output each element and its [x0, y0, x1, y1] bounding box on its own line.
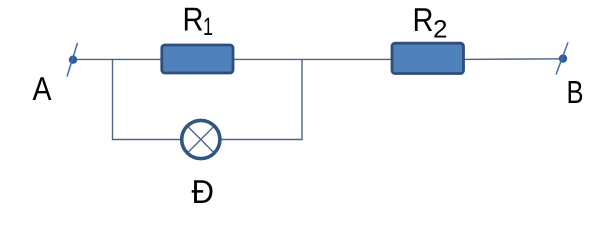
- wire junction2 down (right vertical): [301, 59, 303, 140]
- wire R2 to B: [464, 58, 563, 61]
- resistor R1: [162, 45, 233, 73]
- svg-text:R: R: [413, 1, 434, 38]
- wire junction2 to R2: [302, 58, 391, 60]
- wire bottom left to lamp: [113, 139, 182, 141]
- node A terminal (dot and slash): [67, 43, 78, 77]
- label R2: [413, 1, 448, 44]
- svg-text:A: A: [33, 70, 52, 107]
- label D (lamp): [192, 173, 215, 210]
- wire junction1 to R1: [113, 58, 161, 60]
- resistor R2: [392, 43, 464, 73]
- wire junction1 down (left vertical): [112, 59, 114, 140]
- label R1: [183, 0, 214, 41]
- wire R1 to junction2: [234, 58, 302, 60]
- lamp Đ: [182, 120, 220, 158]
- svg-text:R: R: [183, 0, 204, 37]
- svg-text:Đ: Đ: [192, 173, 215, 210]
- label A: [33, 70, 52, 107]
- wire A to junction1: [73, 58, 113, 60]
- svg-text:B: B: [567, 74, 584, 110]
- node B terminal (dot and slash): [556, 42, 568, 74]
- svg-text:2: 2: [433, 16, 448, 44]
- wire lamp to bottom right: [221, 139, 302, 141]
- svg-text:1: 1: [203, 13, 213, 41]
- label B: [567, 74, 584, 110]
